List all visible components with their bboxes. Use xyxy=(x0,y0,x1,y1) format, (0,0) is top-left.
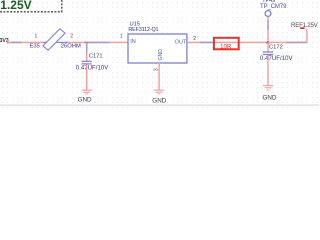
junction node xyxy=(267,41,270,44)
svg-text:1.25V: 1.25V xyxy=(0,0,31,12)
svg-text:IN: IN xyxy=(130,39,136,45)
net label anchor tick xyxy=(7,40,8,43)
svg-text:REF3112-Q1: REF3112-Q1 xyxy=(128,27,158,33)
svg-text:GND: GND xyxy=(152,97,166,104)
capacitor C172 plates xyxy=(263,51,273,52)
pin stub left of bead xyxy=(43,42,47,43)
svg-text:2: 2 xyxy=(70,33,73,39)
svg-text:GND: GND xyxy=(78,96,92,103)
svg-text:1: 1 xyxy=(120,33,123,39)
svg-text:REF1.25V: REF1.25V xyxy=(291,22,319,29)
wire purple patch xyxy=(11,42,22,44)
junction C171 xyxy=(86,42,88,44)
svg-text:0.47UF/10V: 0.47UF/10V xyxy=(76,66,109,72)
sheet edge line xyxy=(0,105,319,106)
wire U15 pin2 to resistor xyxy=(187,42,214,44)
wire vertical to REF1.25V xyxy=(306,29,307,43)
svg-text:10R: 10R xyxy=(220,43,232,50)
svg-text:C171: C171 xyxy=(89,54,103,60)
svg-text:1: 1 xyxy=(35,33,38,39)
wire purple patch xyxy=(84,42,110,44)
svg-text:C172: C172 xyxy=(269,44,283,50)
svg-text:GND: GND xyxy=(158,49,164,61)
capacitor C172 wire top xyxy=(267,43,268,52)
wire through resistor xyxy=(213,42,240,44)
wire C171 to GND xyxy=(86,65,87,90)
ferrite bead E35 body xyxy=(43,29,65,50)
resistor 10R (highlighted) xyxy=(214,38,239,50)
capacitor C171 plates xyxy=(82,61,92,62)
dashed block border horizontal xyxy=(0,11,62,13)
wire purple patch xyxy=(200,42,214,44)
ground symbol (C172) xyxy=(263,85,273,90)
wire C172 to GND xyxy=(267,55,268,85)
pin stub right of bead xyxy=(57,42,68,43)
test point circle TP_CM79 xyxy=(265,11,271,17)
wire purple patch xyxy=(286,42,306,44)
wire U15 pin3 to GND xyxy=(158,63,159,90)
svg-text:26OHM: 26OHM xyxy=(61,43,81,49)
wire purple patch vertical xyxy=(86,44,87,53)
svg-text:0.47UF/10V: 0.47UF/10V xyxy=(260,56,293,62)
wire 3V3 to bead xyxy=(8,42,44,44)
svg-text:OUT: OUT xyxy=(175,39,187,45)
wire C171 vertical top xyxy=(86,43,87,62)
wire bead to IC pin1 xyxy=(68,42,129,44)
IC U15 REF3112-Q1 box xyxy=(128,34,187,63)
grid dots xyxy=(0,0,319,108)
svg-text:TP_CM79: TP_CM79 xyxy=(260,4,287,10)
wire TP to junction xyxy=(267,17,268,43)
wire purple patch vertical xyxy=(267,20,268,30)
wire resistor to junction xyxy=(240,42,268,44)
svg-text:E35: E35 xyxy=(30,43,40,49)
wire junction to REF label elbow xyxy=(268,42,307,44)
dashed block border vertical xyxy=(61,0,63,12)
ground symbol (U15 pin3) xyxy=(154,90,164,95)
svg-text:2: 2 xyxy=(193,36,196,42)
net label anchor tick (red) xyxy=(300,27,304,29)
ground symbol (C171) xyxy=(82,90,92,95)
svg-text:GND: GND xyxy=(263,94,277,101)
